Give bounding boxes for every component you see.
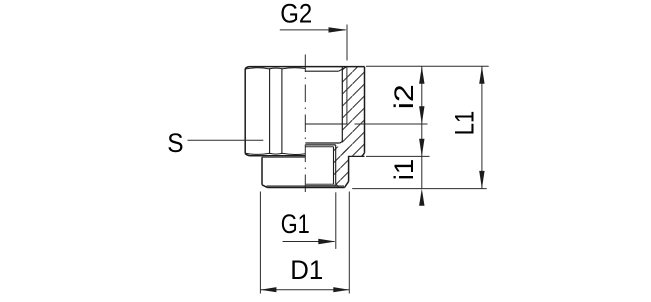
top extension line (i2 / L1) <box>366 65 489 67</box>
shoulder ellipse edge (exterior side) <box>262 156 305 158</box>
dimension G2 line <box>280 29 346 31</box>
dimension D1 extension line left <box>259 192 261 294</box>
dimension L1 line <box>481 66 483 188</box>
hex corner line right <box>281 68 283 154</box>
hex chamfer arcs bottom <box>245 153 305 154</box>
G2 female thread bore ceiling <box>306 70 339 72</box>
i1 top extension line <box>366 155 430 157</box>
bore mouth arc far edge <box>306 183 335 185</box>
shoulder line (bottom of upper body, section side) <box>348 155 365 157</box>
dimension G2 extension line <box>346 25 348 61</box>
dimension L1 arrowhead top <box>479 66 484 84</box>
G1 thread end line <box>305 146 333 148</box>
G2 bore end line <box>305 142 339 144</box>
dimension D1 extension line right <box>348 192 350 294</box>
svg-text:G2: G2 <box>280 0 312 29</box>
dimension D1 arrowhead right <box>333 287 349 292</box>
hex corner line left <box>269 68 271 154</box>
svg-text:i1: i1 <box>389 159 419 181</box>
G2 thread minor line <box>340 67 343 143</box>
dimension G1 arrowhead <box>318 239 336 244</box>
dimension i1 arrowhead top <box>419 139 424 157</box>
dimension G1 extension line <box>335 192 337 249</box>
G1 bore top line <box>305 144 335 146</box>
dimension L1 arrowhead bottom <box>479 171 484 189</box>
G1 bottom entry chamfer <box>336 184 339 188</box>
G2 thread major line <box>346 67 348 124</box>
hex chamfer arcs top <box>245 68 305 69</box>
bore mouth arc near edge <box>306 185 335 187</box>
dimension D1 line <box>260 289 349 291</box>
centerline <box>304 55 306 195</box>
svg-text:S: S <box>167 128 183 158</box>
svg-text:D1: D1 <box>290 255 323 285</box>
G2 thread end line (i2 depth) <box>305 123 347 125</box>
svg-text:G1: G1 <box>281 209 310 239</box>
dimension i2 line <box>421 66 423 156</box>
section hatching upper wall <box>342 67 364 157</box>
body outline (upper hex section) <box>245 67 364 157</box>
G1 thread minor line <box>333 147 335 184</box>
G2 thread entry chamfer <box>339 67 347 72</box>
i2 bottom extension line <box>355 123 428 125</box>
svg-text:L1: L1 <box>450 111 480 136</box>
bottom extension line (i1 / L1) <box>352 188 487 190</box>
section hatching lower wall <box>334 147 349 187</box>
dimension D1 arrowhead left <box>260 287 276 292</box>
dimension i1 line <box>421 156 423 188</box>
dimension i2 arrowhead top <box>419 66 424 84</box>
bottom face inner line <box>267 185 345 187</box>
dimension G2 arrowhead <box>329 27 348 32</box>
dimension i2 arrowhead bottom <box>419 106 424 124</box>
leader line S <box>188 139 264 141</box>
lower cylinder outline <box>262 156 349 187</box>
dimension i1 arrowhead bottom <box>419 189 424 206</box>
G1 thread major line <box>335 145 337 184</box>
dimension G1 line <box>283 241 335 243</box>
svg-text:i2: i2 <box>389 84 419 109</box>
